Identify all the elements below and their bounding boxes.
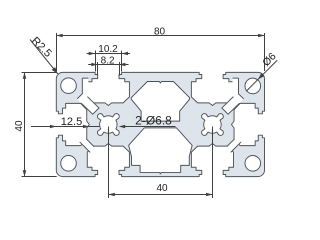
svg-text:80: 80: [154, 26, 166, 37]
dim 40 bottom: [108, 127, 110, 199]
upper right corner relief channel: [222, 78, 244, 114]
top middle cavity: [131, 82, 189, 122]
top-left corner hole diameter 6: [61, 78, 77, 94]
core bore 6.8 right: [202, 114, 224, 136]
dim 40 left: [22, 72, 57, 74]
dim 12.5: [31, 126, 99, 128]
leader R2.5: [30, 40, 58, 74]
svg-text:8.2: 8.2: [101, 56, 115, 67]
leader 2-d6.8: [121, 126, 176, 128]
lower left corner relief channel: [77, 134, 98, 155]
dim 80 top: [56, 33, 58, 71]
bottom middle cavity: [129, 128, 193, 174]
svg-text:12.5: 12.5: [61, 116, 82, 128]
svg-text:40: 40: [14, 120, 25, 132]
lower right corner relief channel: [222, 134, 243, 155]
core bore 6.8 left: [97, 114, 119, 136]
upper left corner relief channel: [77, 78, 99, 114]
bottom-left corner hole diameter 6: [61, 156, 77, 172]
leader d6: [246, 60, 277, 91]
bottom-right corner hole diameter 6: [245, 156, 261, 172]
dim 8.2: [97, 62, 99, 76]
dim 10.2: [95, 51, 97, 72]
svg-text:2-Ø6.8: 2-Ø6.8: [135, 113, 172, 127]
top-right corner hole diameter 6: [245, 78, 261, 94]
svg-text:10.2: 10.2: [98, 44, 118, 55]
aluminum profile body outline with T-slots: [56, 72, 264, 176]
svg-text:40: 40: [156, 183, 168, 194]
